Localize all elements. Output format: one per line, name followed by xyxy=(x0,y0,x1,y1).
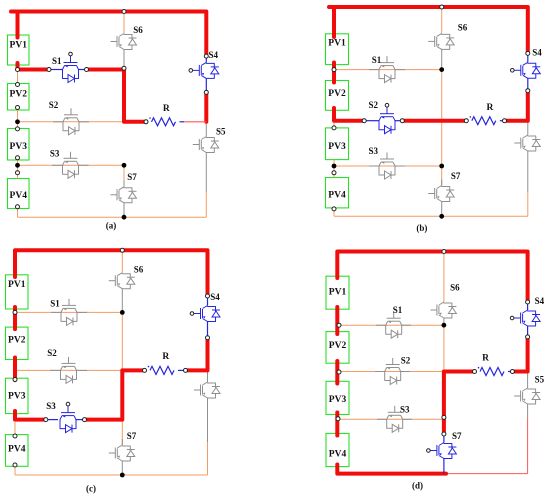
svg-text:PV3: PV3 xyxy=(8,391,26,401)
svg-text:PV4: PV4 xyxy=(10,191,28,201)
svg-text:PV3: PV3 xyxy=(10,142,28,152)
svg-text:PV2: PV2 xyxy=(328,89,346,99)
svg-text:S5: S5 xyxy=(216,126,226,136)
svg-text:S4: S4 xyxy=(535,296,545,306)
svg-text:PV1: PV1 xyxy=(329,287,347,297)
svg-text:PV2: PV2 xyxy=(329,341,347,351)
svg-text:PV2: PV2 xyxy=(8,335,26,345)
svg-text:(b): (b) xyxy=(416,223,427,233)
svg-text:S7: S7 xyxy=(127,172,137,182)
svg-text:S4: S4 xyxy=(208,50,218,60)
svg-text:PV1: PV1 xyxy=(10,41,28,51)
svg-text:S1: S1 xyxy=(393,305,403,315)
svg-text:S3: S3 xyxy=(400,405,410,415)
svg-text:(c): (c) xyxy=(86,484,96,494)
svg-text:PV4: PV4 xyxy=(329,449,347,459)
svg-text:S6: S6 xyxy=(450,283,460,293)
svg-text:S1: S1 xyxy=(372,55,382,65)
svg-text:(a): (a) xyxy=(106,221,117,231)
svg-text:S4: S4 xyxy=(532,48,542,58)
svg-text:PV2: PV2 xyxy=(10,90,28,100)
svg-text:S6: S6 xyxy=(133,25,143,35)
svg-text:PV1: PV1 xyxy=(328,38,346,48)
svg-text:S5: S5 xyxy=(535,375,545,385)
svg-text:S6: S6 xyxy=(458,22,468,32)
svg-text:S2: S2 xyxy=(49,100,59,110)
svg-text:S3: S3 xyxy=(50,149,60,159)
svg-text:S7: S7 xyxy=(452,431,462,441)
svg-text:PV1: PV1 xyxy=(8,280,26,290)
svg-text:R: R xyxy=(482,353,489,363)
svg-text:S4: S4 xyxy=(210,292,220,302)
svg-text:S3: S3 xyxy=(369,146,379,156)
svg-text:S7: S7 xyxy=(451,171,461,181)
svg-text:R: R xyxy=(163,104,170,114)
svg-text:S2: S2 xyxy=(47,348,57,358)
svg-text:(d): (d) xyxy=(412,481,423,491)
svg-text:R: R xyxy=(162,352,169,362)
svg-text:S1: S1 xyxy=(52,56,62,66)
svg-text:R: R xyxy=(486,103,493,113)
svg-text:S7: S7 xyxy=(127,431,137,441)
svg-text:PV4: PV4 xyxy=(8,445,26,455)
svg-text:S2: S2 xyxy=(401,356,411,366)
svg-text:PV3: PV3 xyxy=(328,142,346,152)
svg-text:PV4: PV4 xyxy=(328,191,346,201)
svg-text:PV3: PV3 xyxy=(329,395,347,405)
svg-text:S1: S1 xyxy=(50,298,60,308)
svg-text:S6: S6 xyxy=(134,265,144,275)
svg-text:S2: S2 xyxy=(369,100,379,110)
svg-text:S3: S3 xyxy=(46,401,56,411)
